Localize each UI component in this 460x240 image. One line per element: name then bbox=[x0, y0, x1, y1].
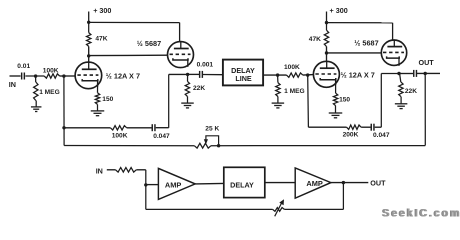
wire B+ rail right bbox=[327, 22, 393, 24]
wire 47K to plate junction V3 bbox=[326, 47, 328, 53]
node V2 cathode junction bbox=[186, 73, 189, 76]
wire 100K to grid of V1 bbox=[60, 75, 76, 77]
resistor R11 22K (V4 cathode load) bbox=[400, 74, 401, 83]
wire 0.001 to delay line bbox=[203, 74, 223, 76]
svg-text:200K: 200K bbox=[343, 132, 359, 139]
svg-text:0.01: 0.01 bbox=[17, 63, 30, 70]
ground for R11 bbox=[400, 97, 402, 104]
ground for R1 bbox=[35, 101, 37, 107]
wire bottom diagram feedback line bbox=[146, 208, 273, 210]
capacitor C5 0.047 (feedback, right) bbox=[370, 124, 372, 131]
wire right feedback line bbox=[308, 126, 346, 128]
wire right feedback tap down bbox=[380, 74, 382, 128]
ground for R4 bbox=[97, 104, 99, 111]
wire V3 cathode to R10 bbox=[335, 80, 337, 93]
wire junction to AMP1 bbox=[146, 184, 159, 186]
svg-text:½ 12A X 7: ½ 12A X 7 bbox=[106, 71, 140, 80]
wire delay line out bbox=[263, 74, 286, 76]
node plate junction V1 bbox=[87, 54, 90, 57]
svg-text:LINE: LINE bbox=[235, 74, 252, 83]
svg-text:1 MEG: 1 MEG bbox=[284, 88, 305, 95]
node supply junction left bbox=[87, 21, 90, 24]
potentiometer R13 25K (feedback level) bbox=[194, 143, 211, 148]
node plate junction V3 bbox=[325, 51, 328, 54]
triode V2 1/2 5687 (cathode follower) bbox=[168, 42, 194, 68]
wire 47K to plate junction bbox=[88, 46, 90, 55]
svg-text:½ 5687: ½ 5687 bbox=[137, 39, 161, 48]
triode V1 1/2 12AX7 (first stage) bbox=[75, 62, 102, 89]
svg-text:22K: 22K bbox=[405, 88, 417, 95]
capacitor C4 (output coupling) bbox=[413, 70, 415, 77]
resistor R8 100K (grid stopper, right) bbox=[287, 73, 303, 77]
wire output feedback down bbox=[342, 183, 344, 210]
wire grid junction V3 down bbox=[307, 75, 310, 127]
svg-text:AMP: AMP bbox=[165, 180, 181, 189]
resistor R9 47K (plate load V3) bbox=[326, 23, 328, 31]
wire 100K to 0.047 bbox=[127, 127, 152, 129]
delay line DL1 (box) bbox=[223, 60, 263, 86]
ground for R10 bbox=[335, 106, 337, 113]
wire grid junction down (left feedback node) bbox=[63, 76, 65, 145]
triode V4 1/2 5687 (output cathode follower) bbox=[381, 40, 406, 65]
node grid junction V3 bbox=[306, 73, 309, 76]
node V4 cathode junction bbox=[397, 72, 400, 75]
capacitor C3 0.047 (feedback) bbox=[151, 124, 153, 131]
node feedback junction left bbox=[62, 126, 65, 129]
svg-text:150: 150 bbox=[339, 96, 350, 103]
amplifier A2 (AMP block) bbox=[295, 168, 331, 198]
wire plate junction to V4 grid bbox=[327, 52, 382, 54]
wire bottom feedback line right bbox=[211, 145, 425, 147]
resistor R4 150 (cathode bias V1) bbox=[95, 93, 99, 105]
triode V3 1/2 12AX7 (second stage) bbox=[313, 61, 339, 87]
svg-text:+ 300: + 300 bbox=[93, 6, 111, 15]
wire feedback line to 100K bbox=[64, 127, 110, 129]
resistor R14 (block input) bbox=[116, 168, 137, 173]
node +300 supply (right) bbox=[326, 12, 328, 23]
wire bottom feedback line left bbox=[64, 145, 194, 147]
resistor R10 150 (cathode bias V3) bbox=[333, 93, 337, 106]
wire corner down to amp input bbox=[145, 170, 147, 210]
wire block input lead bbox=[107, 169, 116, 171]
resistor R6 100K (feedback) bbox=[110, 126, 126, 130]
wire V4 cathode junction left bbox=[381, 73, 399, 75]
svg-text:OUT: OUT bbox=[370, 178, 386, 187]
node wiper junction bbox=[217, 144, 220, 147]
wire feedback tap down bbox=[168, 74, 170, 127]
wire 200K to 0.047 bbox=[361, 126, 370, 128]
svg-text:IN: IN bbox=[96, 167, 103, 176]
wire junction to 0.001 cap bbox=[188, 73, 200, 75]
node OUT junction bbox=[424, 72, 427, 75]
svg-text:22K: 22K bbox=[193, 85, 205, 92]
wire plate lead V1 bbox=[88, 56, 90, 62]
capacitor C1 0.01 (input coupling) bbox=[21, 73, 23, 80]
node input junction bbox=[34, 74, 37, 77]
svg-text:AMP: AMP bbox=[306, 179, 322, 188]
wire to OUT terminal bbox=[417, 72, 440, 74]
wire 0.047 to corner bbox=[156, 127, 169, 129]
node amp2 output junction bbox=[342, 181, 345, 184]
wire 100K to grid of V3 bbox=[303, 74, 314, 77]
svg-text:0.047: 0.047 bbox=[373, 132, 390, 139]
wire rail down to V4 plate bbox=[392, 23, 394, 41]
ground for R5 bbox=[187, 96, 189, 103]
svg-text:100K: 100K bbox=[112, 133, 128, 140]
svg-text:½ 12A X 7: ½ 12A X 7 bbox=[341, 70, 375, 79]
svg-text:DELAY: DELAY bbox=[230, 181, 254, 190]
wire B+ rail left bbox=[89, 21, 180, 23]
wire 0.047 to corner bbox=[375, 126, 382, 128]
svg-text:47K: 47K bbox=[309, 36, 321, 43]
wire to corner bbox=[136, 169, 146, 171]
wire input lead bbox=[10, 75, 21, 77]
wire plate junction to V2 grid bbox=[89, 54, 168, 56]
potentiometer R15 (block feedback, variable) bbox=[273, 208, 285, 212]
svg-text:½ 5687: ½ 5687 bbox=[354, 38, 378, 47]
node supply junction right bbox=[325, 21, 328, 24]
svg-text:+ 300: + 300 bbox=[330, 6, 348, 15]
wire plate lead V3 bbox=[326, 53, 328, 61]
resistor R7 1 MEG (grid leak, right) bbox=[277, 75, 279, 83]
svg-text:0.047: 0.047 bbox=[153, 133, 170, 140]
svg-text:100K: 100K bbox=[284, 64, 300, 71]
wire AMP1 to DELAY bbox=[195, 182, 224, 185]
wire AMP2 to OUT bbox=[331, 182, 368, 184]
resistor R12 200K (feedback, right) bbox=[347, 125, 362, 129]
node delay out junction bbox=[276, 73, 279, 76]
resistor R1 1 MEG (grid leak) bbox=[35, 76, 37, 82]
svg-text:OUT: OUT bbox=[419, 58, 435, 67]
wire R15 arrow bbox=[275, 203, 282, 216]
wire 25K wiper arm bbox=[206, 136, 219, 146]
svg-text:25 K: 25 K bbox=[205, 125, 219, 132]
wire DELAY to AMP2 bbox=[265, 182, 295, 184]
wire cap to grid junction bbox=[25, 75, 44, 77]
ground for R7 bbox=[277, 97, 279, 104]
svg-text:1 MEG: 1 MEG bbox=[39, 89, 60, 96]
node +300 supply (left) bbox=[88, 12, 90, 23]
svg-text:47K: 47K bbox=[95, 35, 107, 42]
svg-text:150: 150 bbox=[102, 96, 113, 103]
wire V1 cathode to R4 bbox=[97, 81, 99, 93]
svg-text:100K: 100K bbox=[43, 67, 59, 74]
node amp1 input junction bbox=[144, 183, 147, 186]
wire OUT feedback down bbox=[424, 74, 426, 146]
wire junction to output cap bbox=[399, 73, 413, 75]
wire V2 cathode junction left bbox=[169, 73, 188, 75]
svg-text:SeekIC.com: SeekIC.com bbox=[383, 207, 460, 219]
amplifier A1 (AMP block) bbox=[158, 168, 195, 199]
capacitor C2 0.001 (coupling to delay line) bbox=[199, 71, 201, 78]
delay block DL2 (box) bbox=[224, 167, 265, 197]
wire rail down to V2 plate bbox=[179, 23, 181, 42]
resistor R2 100K (grid stopper) bbox=[44, 74, 59, 78]
svg-text:0.001: 0.001 bbox=[197, 62, 214, 69]
node grid junction V1 bbox=[62, 74, 65, 77]
resistor R3 47K (plate load V1) bbox=[88, 22, 90, 32]
svg-text:IN: IN bbox=[9, 80, 16, 89]
resistor R5 22K (V2 cathode load) bbox=[187, 74, 189, 81]
